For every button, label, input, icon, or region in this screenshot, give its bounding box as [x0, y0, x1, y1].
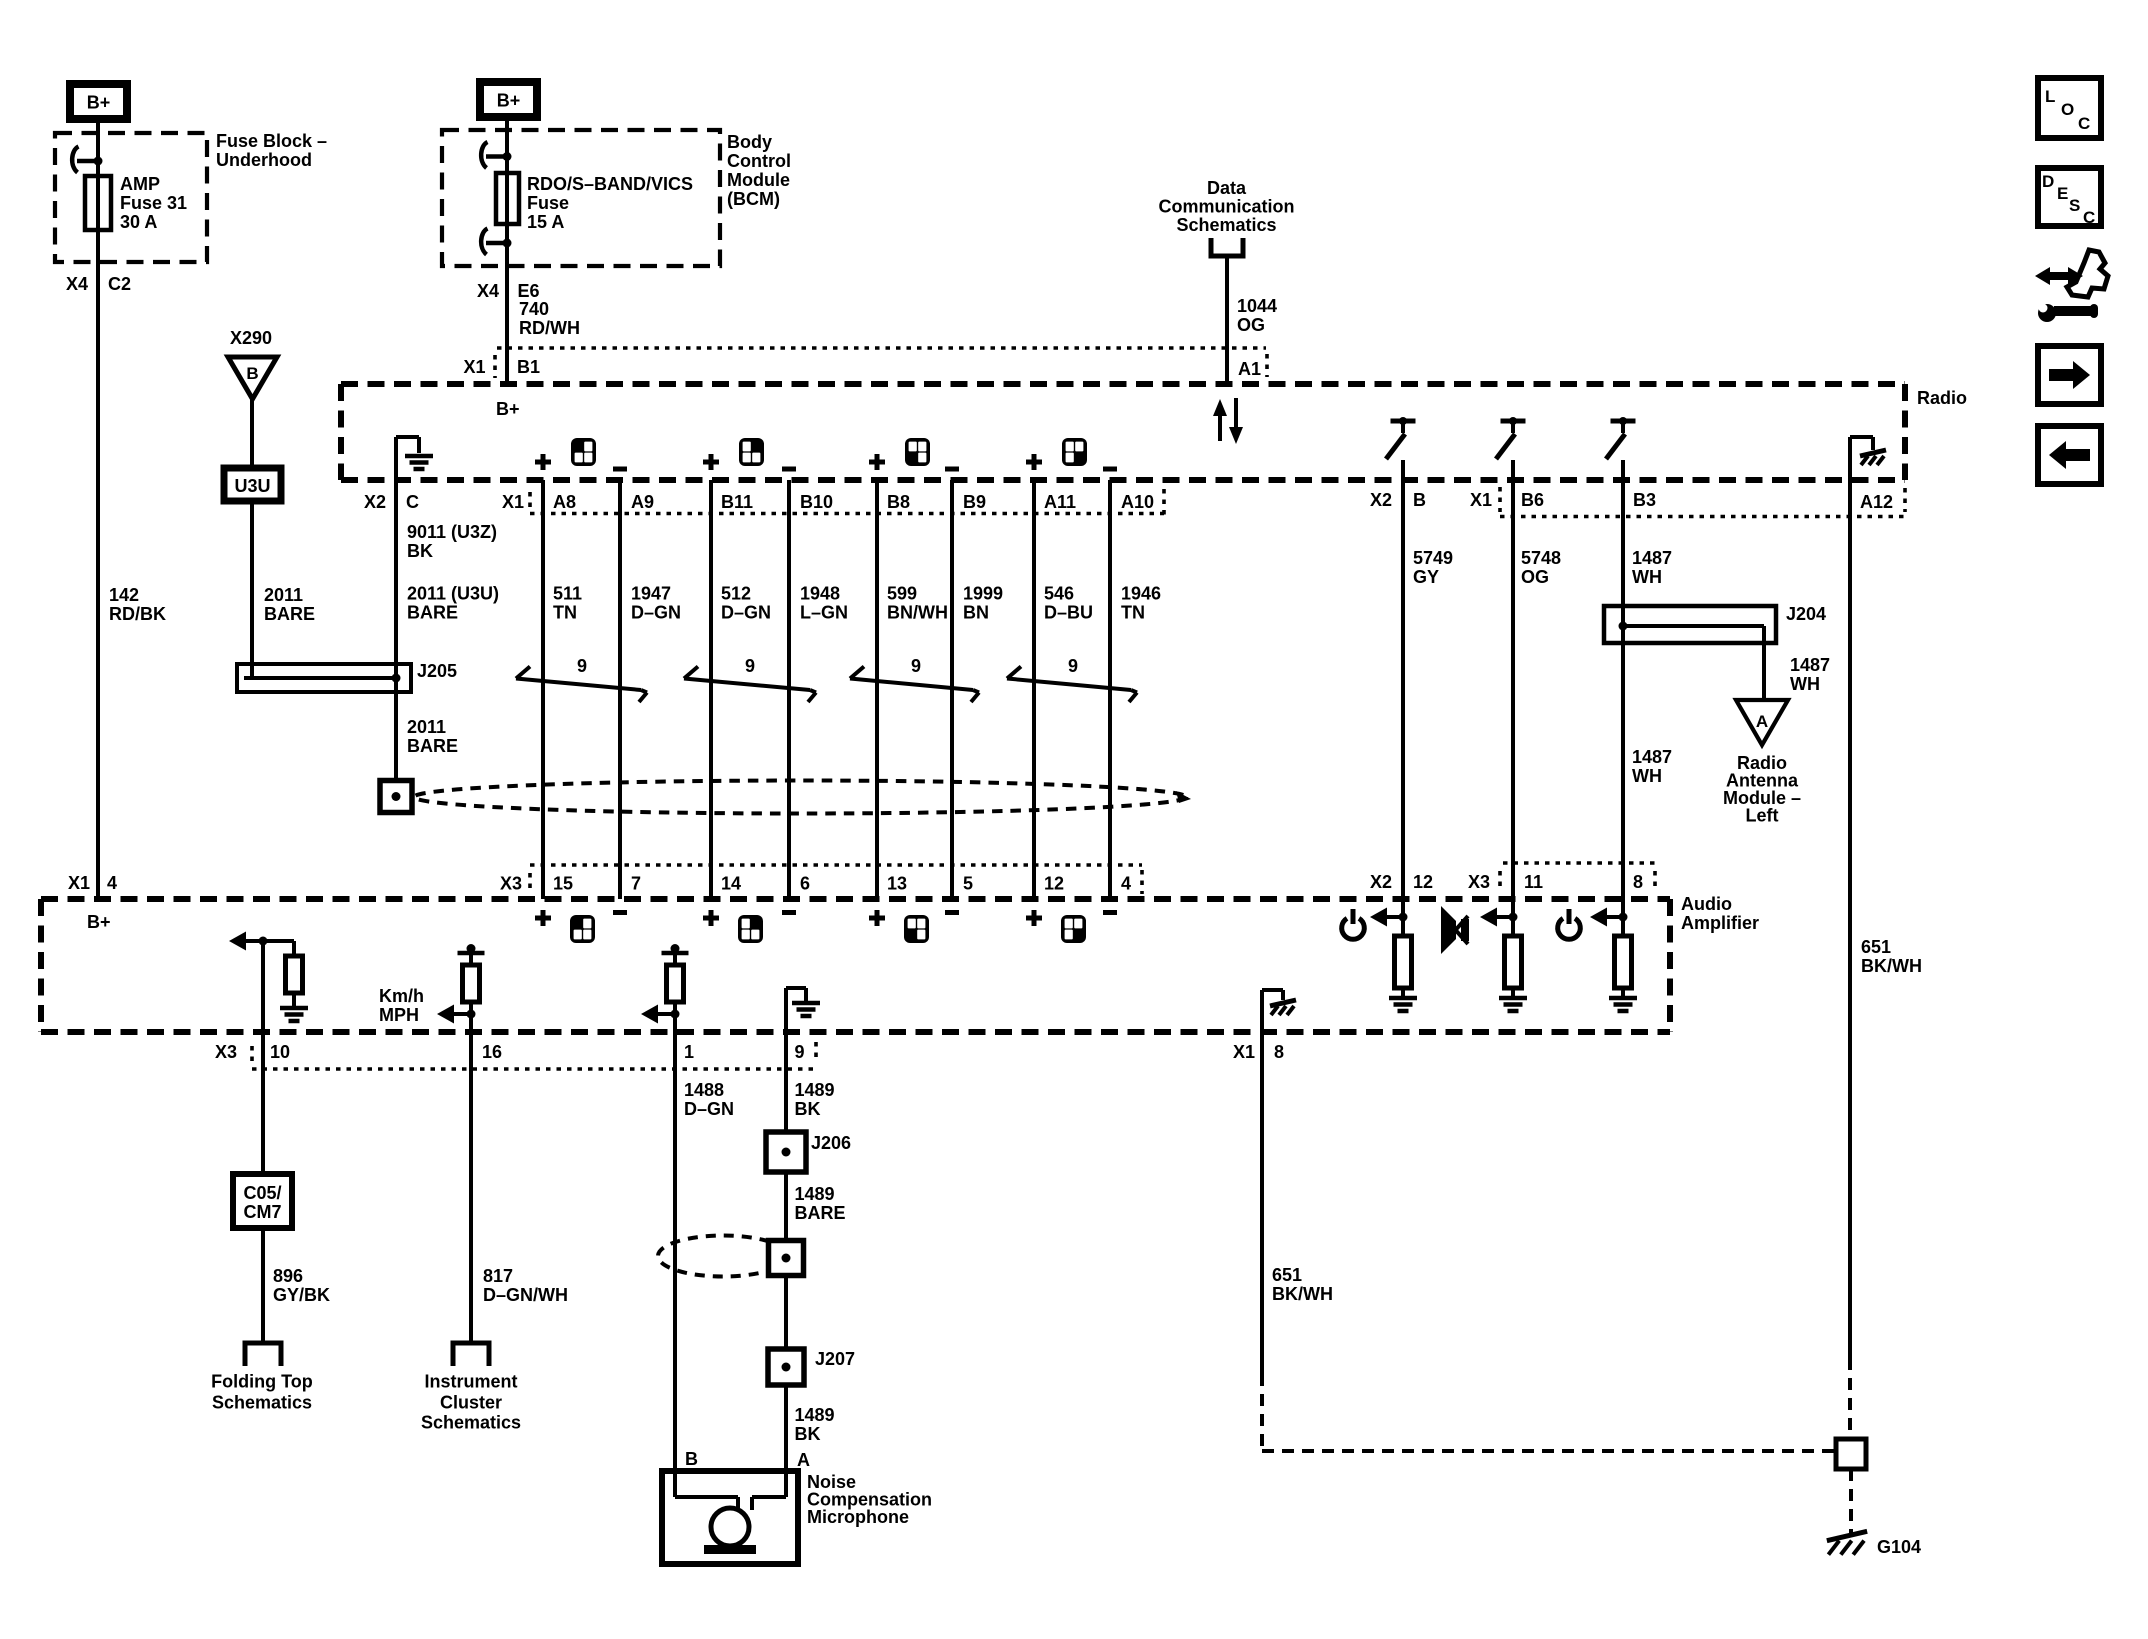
svg-text:C2: C2: [108, 274, 131, 294]
svg-text:D–GN: D–GN: [721, 603, 771, 623]
svg-text:B11: B11: [721, 492, 753, 512]
svg-text:12: 12: [1044, 874, 1064, 894]
svg-text:X1: X1: [1470, 490, 1492, 510]
svg-text:817: 817: [483, 1266, 513, 1286]
svg-text:S: S: [2069, 196, 2080, 215]
svg-text:BN/WH: BN/WH: [887, 603, 948, 623]
svg-text:6: 6: [800, 874, 810, 894]
svg-text:Fuse: Fuse: [527, 193, 569, 213]
svg-text:U3U: U3U: [234, 476, 270, 496]
svg-text:Data: Data: [1207, 178, 1247, 198]
svg-text:Instrument: Instrument: [424, 1372, 517, 1392]
svg-text:B+: B+: [497, 91, 521, 111]
svg-text:MPH: MPH: [379, 1005, 419, 1025]
svg-text:2011: 2011: [264, 585, 303, 605]
svg-text:8: 8: [1633, 872, 1643, 892]
svg-text:Fuse Block –: Fuse Block –: [216, 131, 327, 151]
svg-text:A12: A12: [1860, 492, 1893, 512]
svg-text:9011 (U3Z): 9011 (U3Z): [407, 522, 497, 542]
svg-text:Audio: Audio: [1681, 894, 1732, 914]
svg-text:Folding Top: Folding Top: [211, 1372, 313, 1392]
svg-text:C: C: [2078, 114, 2090, 133]
svg-text:RD/BK: RD/BK: [109, 604, 166, 624]
svg-text:BK/WH: BK/WH: [1861, 956, 1922, 976]
svg-text:D: D: [2042, 172, 2054, 191]
svg-text:B1: B1: [517, 357, 540, 377]
svg-text:B: B: [246, 364, 258, 383]
svg-text:1: 1: [684, 1042, 694, 1062]
svg-text:BARE: BARE: [264, 604, 315, 624]
svg-text:15 A: 15 A: [527, 212, 564, 232]
svg-text:WH: WH: [1632, 766, 1662, 786]
svg-text:OG: OG: [1521, 567, 1549, 587]
svg-text:A1: A1: [1238, 359, 1261, 379]
svg-text:10: 10: [270, 1042, 290, 1062]
svg-text:142: 142: [109, 585, 139, 605]
svg-text:RD/WH: RD/WH: [519, 318, 580, 338]
svg-text:9: 9: [577, 656, 587, 676]
svg-text:Fuse 31: Fuse 31: [120, 193, 187, 213]
svg-text:Cluster: Cluster: [440, 1393, 502, 1413]
svg-text:X1: X1: [1233, 1042, 1255, 1062]
svg-text:X1: X1: [68, 873, 90, 893]
svg-text:E6: E6: [518, 281, 540, 301]
svg-text:Schematics: Schematics: [1176, 215, 1276, 235]
svg-text:B+: B+: [496, 399, 520, 419]
svg-text:Left: Left: [1746, 806, 1779, 826]
svg-text:740: 740: [519, 299, 549, 319]
svg-text:E: E: [2057, 184, 2068, 203]
svg-text:1487: 1487: [1790, 655, 1830, 675]
svg-text:J205: J205: [417, 661, 457, 681]
svg-text:C: C: [406, 492, 419, 512]
svg-text:B+: B+: [87, 93, 111, 113]
svg-text:B: B: [685, 1449, 698, 1469]
svg-text:C05/: C05/: [243, 1183, 281, 1203]
svg-text:Module: Module: [727, 170, 790, 190]
svg-text:651: 651: [1272, 1265, 1302, 1285]
svg-text:9: 9: [1068, 656, 1078, 676]
svg-text:X3: X3: [215, 1042, 237, 1062]
svg-text:B+: B+: [87, 912, 111, 932]
svg-text:BK: BK: [795, 1099, 821, 1119]
svg-text:511: 511: [553, 584, 582, 604]
svg-text:B9: B9: [963, 492, 986, 512]
svg-text:BK/WH: BK/WH: [1272, 1284, 1333, 1304]
svg-text:Microphone: Microphone: [807, 1507, 909, 1527]
svg-text:B3: B3: [1633, 490, 1656, 510]
svg-text:546: 546: [1044, 584, 1074, 604]
svg-text:J204: J204: [1786, 604, 1826, 624]
svg-text:GY/BK: GY/BK: [273, 1285, 330, 1305]
svg-text:12: 12: [1413, 872, 1433, 892]
svg-text:5: 5: [963, 874, 973, 894]
svg-text:599: 599: [887, 584, 917, 604]
svg-text:GY: GY: [1413, 567, 1439, 587]
svg-text:Schematics: Schematics: [421, 1413, 521, 1433]
svg-text:BK: BK: [795, 1424, 821, 1444]
svg-text:A9: A9: [631, 492, 654, 512]
svg-text:1487: 1487: [1632, 747, 1672, 767]
svg-text:A8: A8: [553, 492, 576, 512]
svg-text:1947: 1947: [631, 584, 671, 604]
svg-text:651: 651: [1861, 937, 1891, 957]
svg-text:WH: WH: [1790, 674, 1820, 694]
svg-text:A11: A11: [1044, 492, 1076, 512]
svg-text:D–GN: D–GN: [631, 603, 681, 623]
svg-text:TN: TN: [1121, 603, 1145, 623]
svg-text:A: A: [797, 1450, 810, 1470]
svg-text:BK: BK: [407, 541, 433, 561]
svg-text:1488: 1488: [684, 1080, 724, 1100]
svg-text:4: 4: [1121, 874, 1131, 894]
svg-text:9: 9: [745, 656, 755, 676]
svg-text:896: 896: [273, 1266, 303, 1286]
svg-text:11: 11: [1524, 872, 1543, 892]
svg-text:O: O: [2061, 100, 2074, 119]
svg-text:7: 7: [631, 874, 641, 894]
svg-text:Communication: Communication: [1158, 197, 1294, 217]
svg-text:15: 15: [553, 874, 573, 894]
svg-text:D–GN/WH: D–GN/WH: [483, 1285, 568, 1305]
svg-text:B: B: [1413, 490, 1426, 510]
svg-text:4: 4: [107, 873, 117, 893]
svg-text:5748: 5748: [1521, 548, 1561, 568]
svg-text:X4: X4: [477, 281, 499, 301]
svg-text:Radio: Radio: [1917, 388, 1967, 408]
svg-text:A: A: [1756, 712, 1768, 731]
svg-text:BARE: BARE: [407, 603, 458, 623]
svg-text:2011: 2011: [407, 717, 446, 737]
svg-text:D–GN: D–GN: [684, 1099, 734, 1119]
svg-text:1489: 1489: [795, 1080, 835, 1100]
svg-text:Schematics: Schematics: [212, 1393, 312, 1413]
svg-text:Control: Control: [727, 151, 791, 171]
svg-text:Km/h: Km/h: [379, 986, 424, 1006]
svg-text:1999: 1999: [963, 584, 1003, 604]
svg-text:Underhood: Underhood: [216, 150, 312, 170]
svg-text:G104: G104: [1877, 1537, 1921, 1557]
svg-text:9: 9: [911, 656, 921, 676]
svg-text:1487: 1487: [1632, 548, 1672, 568]
svg-text:X3: X3: [1468, 872, 1490, 892]
svg-text:X2: X2: [1370, 872, 1392, 892]
svg-text:A10: A10: [1121, 492, 1154, 512]
svg-text:OG: OG: [1237, 315, 1265, 335]
svg-text:16: 16: [482, 1042, 502, 1062]
svg-text:13: 13: [887, 874, 907, 894]
svg-text:14: 14: [721, 874, 741, 894]
svg-text:8: 8: [1274, 1042, 1284, 1062]
svg-text:TN: TN: [553, 603, 577, 623]
svg-text:BARE: BARE: [795, 1203, 846, 1223]
svg-text:X4: X4: [66, 274, 88, 294]
svg-text:X2: X2: [364, 492, 386, 512]
svg-text:512: 512: [721, 584, 751, 604]
svg-text:BN: BN: [963, 603, 989, 623]
svg-text:WH: WH: [1632, 567, 1662, 587]
svg-text:Body: Body: [727, 132, 772, 152]
svg-text:D–BU: D–BU: [1044, 603, 1093, 623]
svg-text:30 A: 30 A: [120, 212, 157, 232]
svg-text:1946: 1946: [1121, 584, 1161, 604]
svg-text:1044: 1044: [1237, 296, 1277, 316]
svg-text:X1: X1: [502, 492, 524, 512]
svg-text:X1: X1: [464, 357, 486, 377]
svg-text:RDO/S–BAND/VICS: RDO/S–BAND/VICS: [527, 174, 693, 194]
svg-text:AMP: AMP: [120, 174, 160, 194]
svg-text:1489: 1489: [795, 1184, 835, 1204]
svg-text:L: L: [2045, 87, 2055, 106]
svg-text:C: C: [2083, 208, 2095, 227]
svg-text:X2: X2: [1370, 490, 1392, 510]
svg-text:J207: J207: [815, 1349, 855, 1369]
svg-text:BARE: BARE: [407, 736, 458, 756]
svg-text:1948: 1948: [800, 584, 840, 604]
svg-text:9: 9: [795, 1042, 805, 1062]
svg-text:J206: J206: [811, 1133, 851, 1153]
svg-text:CM7: CM7: [243, 1202, 281, 1222]
svg-text:Amplifier: Amplifier: [1681, 913, 1759, 933]
svg-text:B8: B8: [887, 492, 910, 512]
svg-text:L–GN: L–GN: [800, 603, 848, 623]
svg-text:X3: X3: [500, 874, 522, 894]
svg-text:B6: B6: [1521, 490, 1544, 510]
svg-text:2011 (U3U): 2011 (U3U): [407, 584, 499, 604]
svg-text:B10: B10: [800, 492, 833, 512]
svg-text:X290: X290: [230, 328, 272, 348]
svg-text:1489: 1489: [795, 1405, 835, 1425]
svg-text:5749: 5749: [1413, 548, 1453, 568]
svg-text:(BCM): (BCM): [727, 189, 780, 209]
